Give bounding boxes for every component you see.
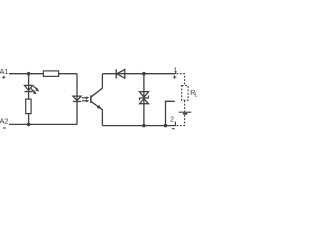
TVS D2 top triangle (pointing down) [140, 92, 149, 98]
resistor R1 (series input resistor, horizontal box) [43, 71, 58, 77]
battery B1 positive plate (long) [179, 111, 192, 113]
node junction top rail / TVS [142, 72, 146, 76]
LED1 emission arrow 1 [33, 86, 39, 92]
wire from A1 junction down to LED branch [28, 74, 30, 99]
dashed external wire below RL [184, 100, 186, 111]
dashed external wire from battery to terminal 2 [176, 115, 184, 126]
TVS D2 bottom triangle (pointing up) [140, 99, 149, 104]
svg-text:2: 2 [170, 116, 174, 123]
diode D1 cathode bar [115, 69, 117, 78]
battery B1 negative plate (short thick) [183, 113, 187, 115]
node junction on A1 wire [27, 72, 31, 76]
node junction bottom rail / TVS [142, 124, 146, 128]
phototransistor Q1 emitter lead [91, 102, 102, 126]
resistor R2 (vertical box in LED branch) [26, 99, 31, 114]
load resistor RL dashed box [182, 86, 188, 101]
opto light arrow 1 [82, 96, 90, 99]
wire A2 horizontal [9, 123, 77, 125]
terminal 1 label [174, 67, 178, 74]
phototransistor Q1 base bar [90, 95, 92, 103]
svg-text:A2: A2 [0, 117, 8, 126]
minus sign at A2 [3, 127, 6, 129]
bridge tap stub (vertical with horizontal arm) [166, 101, 175, 125]
plus sign at terminal 1 [173, 75, 176, 78]
LED1 cathode bar [25, 91, 33, 93]
minus sign at terminal 2 [172, 128, 175, 130]
wire A1 horizontal [9, 73, 77, 75]
LED1 status indicator diode triangle [25, 85, 33, 90]
wire output bottom rail [102, 125, 175, 127]
wire optocoupler input vertical [76, 74, 78, 125]
op-to LED U1 input diode triangle [73, 96, 81, 101]
terminal 2 label [170, 116, 174, 123]
terminal 2 tick [174, 122, 176, 126]
diode D1 triangle (pointing left) [117, 70, 125, 79]
node junction on A2 wire [27, 123, 31, 127]
svg-text:A1: A1 [0, 67, 8, 76]
terminal A1 label [0, 67, 8, 76]
terminal A2 label [0, 117, 8, 126]
load resistor RL label [190, 90, 198, 99]
node junction bottom rail / stub [164, 124, 168, 128]
plus sign at A1 [2, 76, 5, 79]
wire TVS vertical [143, 74, 145, 126]
terminal 1 tick [175, 72, 177, 74]
phototransistor Q1 emitter arrowhead [97, 105, 102, 109]
dashed external wire from terminal 1 [176, 74, 184, 86]
svg-text:L: L [195, 93, 198, 99]
TVS D2 zener bar with hooks [140, 96, 149, 101]
opto light arrow 2 [82, 99, 90, 102]
opto LED U1 cathode bar [73, 101, 81, 103]
wire from R2 down to A2 wire [28, 114, 30, 125]
LED1 emission arrow 2 [31, 89, 37, 95]
phototransistor Q1 collector lead [91, 74, 102, 97]
wire output top rail [102, 73, 175, 75]
